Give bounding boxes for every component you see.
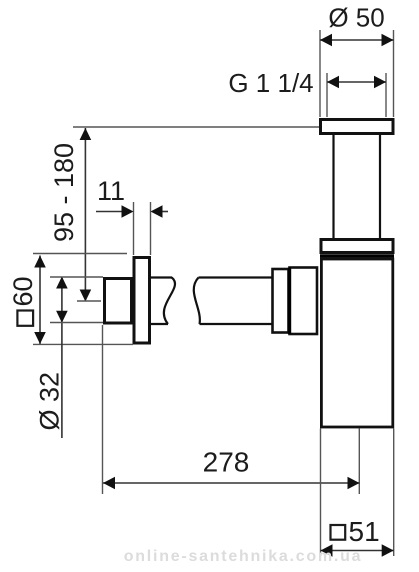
svg-text:11: 11: [97, 176, 125, 206]
extension line thread right: [385, 73, 387, 117]
label 95-180: [49, 143, 79, 242]
thread label G 1 1/4: [228, 68, 313, 98]
svg-text:60: 60: [8, 276, 38, 306]
pipe segment left of break: [151, 278, 175, 325]
bottle body: [321, 259, 392, 427]
nut divider: [288, 268, 291, 335]
dimension line 278: [103, 477, 360, 489]
extension line 278 right centerline: [358, 429, 360, 495]
extension line 278 left: [102, 325, 104, 494]
dimension line thread: [327, 76, 386, 88]
dimension label Ø50: [328, 2, 384, 32]
extension line Ø50 right: [393, 30, 395, 117]
joint line: [320, 254, 394, 257]
svg-text:Ø 32: Ø 32: [35, 372, 65, 431]
label 278: [203, 446, 250, 477]
dimension line Ø50: [320, 34, 394, 46]
dimension Ø32 vertical: [56, 277, 68, 439]
pipe segment right of break: [194, 278, 272, 325]
top flange: [321, 120, 394, 134]
extension line square-51 left: [320, 429, 322, 557]
extension line square-60 bottom: [33, 343, 133, 345]
leader line to thread flange: [73, 126, 324, 128]
extension line 11 right: [150, 202, 152, 255]
svg-text:51: 51: [349, 516, 380, 547]
dimension line square-51: [321, 544, 394, 556]
svg-text:Ø 50: Ø 50: [328, 2, 384, 32]
extension line 11 left: [133, 202, 135, 255]
dimension 95-180 vertical: [80, 128, 92, 302]
extension line square-60 top: [33, 253, 127, 255]
compression nut body: [290, 268, 318, 335]
label square-60: [8, 276, 38, 325]
cap flange: [321, 240, 393, 253]
riser pipe: [334, 135, 381, 238]
label 11: [97, 176, 125, 206]
svg-text:online-santehnika.com.ua: online-santehnika.com.ua: [124, 548, 362, 565]
extension line Ø32 bottom: [50, 322, 103, 324]
extension line Ø32 top: [50, 276, 103, 278]
compression nut ring: [273, 269, 289, 333]
wall pipe stub: [105, 279, 132, 324]
label Ø32: [35, 372, 65, 431]
pipe centerline tick: [77, 300, 101, 302]
extension line square-51 right: [393, 429, 395, 557]
extension line Ø50 left: [319, 30, 321, 117]
watermark online-santehnika.com.ua: [124, 548, 362, 565]
svg-text:G 1 1/4: G 1 1/4: [228, 68, 313, 98]
svg-text:278: 278: [203, 446, 250, 477]
svg-text:95 - 180: 95 - 180: [49, 143, 79, 242]
dimension arrows 11: [96, 205, 168, 217]
wall flange: [134, 258, 150, 344]
dimension square-60 vertical: [34, 256, 46, 345]
extension line thread left: [326, 73, 328, 117]
label square-51: [331, 516, 380, 547]
